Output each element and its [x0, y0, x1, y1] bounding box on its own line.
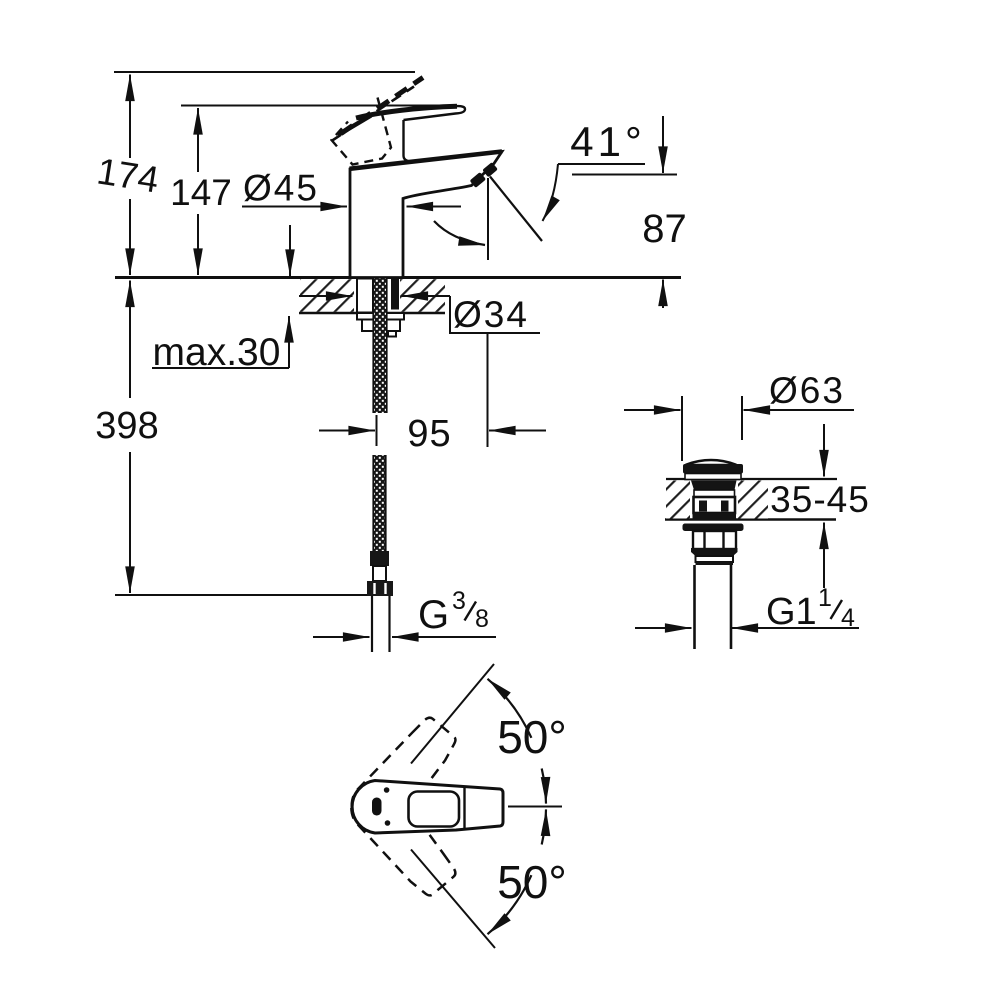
- max.30 up arrow below deck: [288, 316, 290, 368]
- dim 87 up arrow: [662, 280, 664, 309]
- drain cap dome: [687, 460, 736, 465]
- dim 174 vertical with arrows: [129, 75, 131, 159]
- dim 95 right arrow: [489, 430, 546, 432]
- dim D45 right arrow: [407, 206, 462, 208]
- lower 50 arc outer segment: [488, 875, 532, 934]
- svg-text:95: 95: [407, 413, 451, 455]
- svg-text:87: 87: [642, 207, 687, 251]
- drain neck white band: [685, 474, 741, 480]
- svg-text:8: 8: [475, 605, 489, 633]
- dim D63 right arrow: [744, 409, 855, 411]
- ref line 147: [181, 105, 448, 107]
- 398 bottom reference line: [115, 594, 367, 596]
- dim 398 down arrow: [129, 452, 131, 593]
- threaded shank and hose upper segment: [373, 279, 388, 414]
- max.30 underline: [152, 367, 289, 369]
- dim D34 right arrow: [402, 295, 451, 297]
- D63 left extension line: [681, 396, 683, 461]
- lower 50 arc inner segment: [542, 809, 546, 844]
- raised handle dashed lower edge: [332, 87, 415, 142]
- dim 87 down arrow: [662, 116, 664, 173]
- upper 50 arc inner segment: [542, 769, 546, 804]
- 87 top reference line: [572, 174, 677, 176]
- dim 95 left arrow: [319, 430, 375, 432]
- hose break centerline tick: [376, 415, 378, 446]
- deck bottom line: [299, 312, 445, 314]
- hose end ferrule: [370, 551, 389, 566]
- svg-text:3: 3: [452, 587, 466, 615]
- right deck top line: [666, 478, 837, 480]
- drain window slot left: [699, 501, 707, 512]
- handle inner window: [409, 792, 460, 827]
- drain taper band: [691, 552, 738, 556]
- drain window slot right: [721, 501, 729, 512]
- drain body window: [694, 497, 736, 513]
- dim 35-45 down arrow: [823, 424, 825, 477]
- deck hatch left of faucet: [300, 279, 354, 312]
- angle leg upper: [411, 664, 494, 764]
- 41deg leader arrow: [543, 164, 559, 221]
- shank dark bar: [391, 279, 399, 310]
- svg-text:Ø45: Ø45: [243, 168, 319, 209]
- drain ring dark band: [696, 562, 734, 565]
- dim 147 vertical with arrows: [197, 108, 199, 172]
- upper 50 arc outer segment: [488, 679, 532, 738]
- flow direction curved arrow: [434, 221, 485, 245]
- angle leg lower: [411, 850, 495, 949]
- mounting nut step: [388, 331, 396, 337]
- handle dot lower: [385, 820, 391, 826]
- rotated handle dashed upper copy: [341, 711, 463, 843]
- aerator at spout tip: [470, 162, 498, 188]
- drain locknut inner lines: [703, 531, 705, 549]
- svg-text:G: G: [418, 593, 449, 637]
- 41deg reference diagonal: [490, 177, 542, 242]
- drain lower flange: [683, 524, 744, 532]
- D34 leader step: [450, 296, 540, 333]
- handle lever down position top edge: [356, 106, 457, 118]
- ref line 174 top: [114, 71, 415, 73]
- handle cap slot: [372, 798, 382, 816]
- deck hatch right of faucet: [400, 279, 445, 312]
- handle lever tip: [404, 106, 466, 120]
- D34 drop line: [487, 333, 489, 447]
- drain locknut bottom band: [691, 548, 738, 552]
- 41deg underline: [558, 163, 645, 165]
- svg-text:50°: 50°: [497, 711, 567, 763]
- right deck bottom line: [665, 518, 836, 520]
- handle dot upper: [384, 787, 390, 793]
- drain locknut: [693, 531, 736, 549]
- dim D45 left arrow: [242, 206, 347, 208]
- svg-text:1: 1: [818, 584, 832, 612]
- centerline right: [508, 806, 562, 808]
- D63 right extension line: [741, 396, 743, 440]
- dim G114 right arrow: [732, 627, 860, 629]
- mounting flange washer: [357, 313, 404, 320]
- mounting nut: [362, 320, 400, 332]
- drain tailpiece: [693, 565, 696, 649]
- dim G38 right arrow: [392, 636, 496, 638]
- handle neck right edge: [404, 120, 412, 162]
- hose lower segment: [373, 455, 387, 552]
- drain cap rim band: [683, 464, 743, 474]
- svg-text:35-45: 35-45: [770, 479, 870, 520]
- drain body top band: [691, 481, 737, 491]
- dim D63 left arrow: [624, 409, 681, 411]
- svg-text:Ø63: Ø63: [769, 370, 845, 411]
- hose end collar: [373, 566, 386, 581]
- handle top view body: [352, 781, 503, 834]
- dim 398 up arrow: [129, 281, 131, 399]
- rotated handle dashed lower copy: [341, 771, 463, 903]
- handle body-lever separation line: [463, 788, 465, 830]
- right deck hatch left patch: [666, 481, 690, 519]
- spout outlet vertical line: [487, 178, 489, 260]
- hose end tube: [371, 596, 373, 652]
- dim D34 left arrow: [299, 295, 353, 297]
- svg-text:147: 147: [170, 172, 232, 213]
- drain ring: [696, 556, 734, 562]
- svg-text:50°: 50°: [497, 856, 567, 908]
- dim G114 left arrow: [635, 627, 692, 629]
- drain body white band: [694, 490, 735, 497]
- raised handle dashed body outline: [332, 98, 392, 165]
- dim 35-45 up arrow: [823, 523, 825, 589]
- max.30 down arrow above deck: [289, 225, 291, 276]
- right deck hatch right patch: [738, 481, 768, 519]
- deck top line: [115, 276, 681, 279]
- handle pivot solid stroke: [338, 116, 371, 136]
- svg-text:398: 398: [95, 405, 158, 447]
- raised handle dashed top edge: [341, 78, 423, 134]
- spout top edge thick: [350, 152, 503, 169]
- svg-text:G1: G1: [766, 591, 817, 633]
- faucet body and spout: [350, 152, 502, 278]
- dim G38 left arrow: [313, 636, 370, 638]
- svg-text:41°: 41°: [570, 118, 646, 165]
- hose end nut: [367, 581, 393, 596]
- svg-text:Ø34: Ø34: [453, 294, 529, 335]
- drain body bottom band: [693, 513, 737, 520]
- shank sleeve below deck: [357, 279, 373, 313]
